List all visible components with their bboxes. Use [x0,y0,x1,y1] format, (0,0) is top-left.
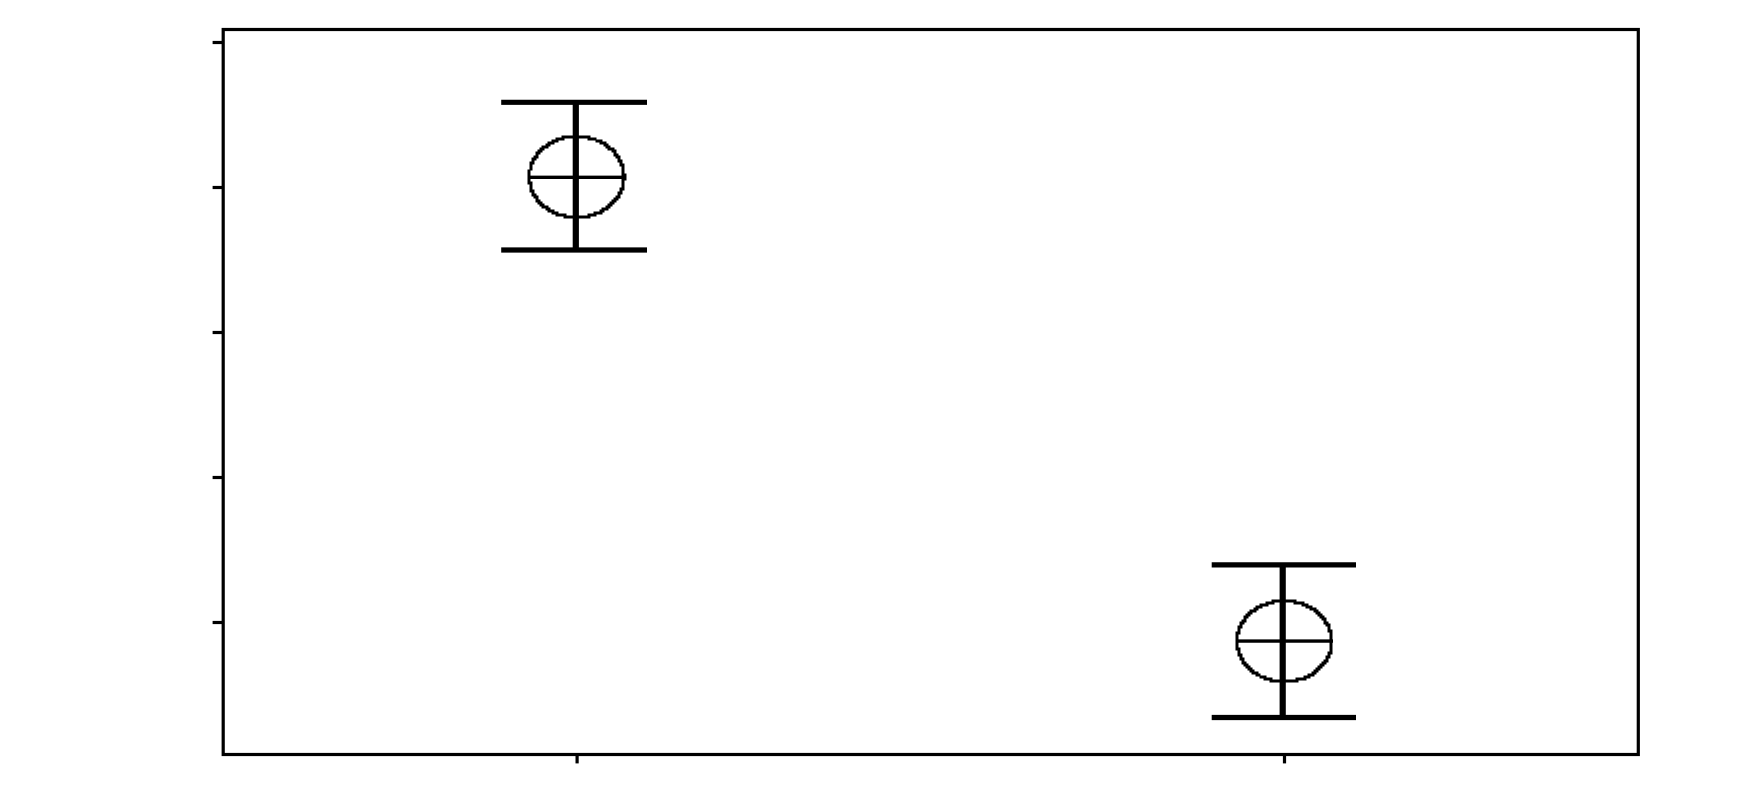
plot frame box [223,30,1638,755]
marker circle point 2 [1236,600,1333,683]
y tick 4 [213,476,224,479]
error bar vertical line point 2 [1280,565,1286,718]
x tick 1 [575,755,578,764]
marker horizontal line point 2 [1236,639,1333,642]
y tick 3 [213,331,224,334]
error bar bottom cap point 1 [501,247,647,252]
y tick 5 [213,621,224,624]
error bar vertical line point 1 [573,102,579,250]
y tick 2 [213,186,224,189]
marker horizontal line point 1 [528,176,625,179]
y tick 1 [213,41,224,44]
marker circle point 1 [528,136,627,219]
error bar top cap point 1 [501,100,647,105]
x tick 2 [1283,755,1286,764]
error bar top cap point 2 [1212,562,1356,567]
error bar bottom cap point 2 [1212,715,1356,720]
